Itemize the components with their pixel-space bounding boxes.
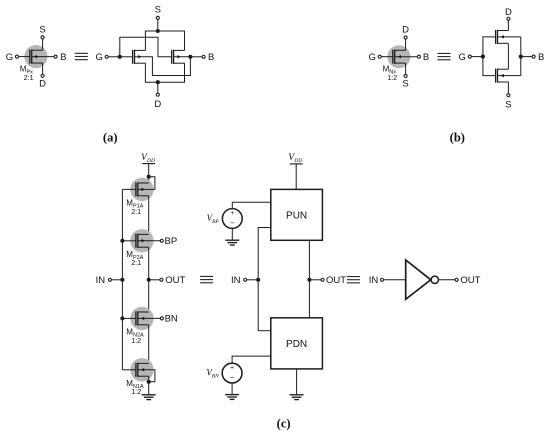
svg-text:+: + <box>230 210 234 217</box>
wire M1 source riser to S rail <box>144 31 146 50</box>
wire S rail <box>145 30 185 32</box>
wire M1 bulk return to B node <box>135 57 191 76</box>
svg-text:−: − <box>230 373 235 382</box>
wire MNx drain lead up to D terminal <box>405 39 407 50</box>
svg-text:OUT: OUT <box>460 275 480 286</box>
terminal OUT of block diagram <box>321 278 324 281</box>
node MN1A source junction <box>147 380 151 384</box>
wire OUT node to OUT terminal <box>149 279 160 281</box>
equivalence symbol left of inverter <box>347 276 360 278</box>
svg-text:S: S <box>402 79 408 90</box>
svg-text:S: S <box>39 24 45 35</box>
svg-text:IN: IN <box>369 275 379 286</box>
wire MPx drain lead down to D terminal <box>42 63 44 74</box>
VDD supply bar of block diagram <box>290 163 303 165</box>
node OUT junction of block diagram <box>307 278 311 282</box>
wire MN2A gate from IN line <box>122 317 135 319</box>
wire D rail to D terminal <box>157 82 159 93</box>
equivalence symbol left of (c) block diagram <box>200 275 213 277</box>
wire MN1A source to ground <box>148 376 150 395</box>
terminal D of MPx <box>41 74 44 77</box>
terminal S of (a) equivalent <box>156 16 159 19</box>
terminal G of MPx <box>15 55 18 58</box>
wire IN terminal to IN node <box>247 279 258 281</box>
gray highlight circle around MP1A <box>130 178 153 201</box>
wire VBN to ground <box>231 383 233 395</box>
wire MN1A bulk tied to source node <box>138 370 155 382</box>
svg-text:VBN: VBN <box>206 368 219 380</box>
inverter bubble <box>431 276 438 283</box>
node B junction <box>188 55 192 59</box>
voltage source VBN circle <box>222 363 242 383</box>
wire G terminal to G node <box>471 56 483 58</box>
wire MN2A source to MN1A drain <box>148 325 150 364</box>
node MN2A gate junction on IN line <box>120 316 124 320</box>
wire bottom bulk to B rail <box>498 75 521 77</box>
svg-text:G: G <box>459 52 466 63</box>
VDD supply bar of (c) stack <box>142 163 155 165</box>
transistor MPx symbol body (PMOS 4-terminal) <box>29 50 31 64</box>
wire M2 source riser to S rail <box>184 31 186 50</box>
transistor MP2A <box>135 234 137 248</box>
equivalence symbol of (a) <box>75 52 88 54</box>
svg-text:1:2: 1:2 <box>131 387 141 396</box>
terminal G of (a) equivalent circuit <box>105 55 108 58</box>
terminal B of MPx <box>54 55 57 58</box>
wire VDD to PUN box <box>295 164 297 190</box>
terminal B of (b) equivalent <box>532 55 535 58</box>
gray highlight circle around MN1A <box>130 358 153 381</box>
wire IN node to PDN box <box>258 280 271 331</box>
ground of VBN <box>225 394 239 396</box>
wire MNx bulk to B terminal <box>395 56 418 58</box>
wire MP2A gate from IN line <box>122 240 135 242</box>
node B junction of (b) <box>519 55 523 59</box>
svg-text:D: D <box>39 79 46 90</box>
terminal IN of (c) stack <box>108 278 111 281</box>
wire B node to B terminal <box>521 56 532 58</box>
svg-text:+: + <box>230 365 234 372</box>
svg-text:B: B <box>538 52 544 63</box>
svg-text:VDD: VDD <box>288 152 302 164</box>
terminal S of MNx <box>404 74 407 77</box>
transistor MP1A <box>135 182 137 196</box>
node G junction of (b) <box>481 55 485 59</box>
terminal BN <box>160 317 163 320</box>
wire M2 bulk to B node <box>174 56 191 58</box>
ground of PDN <box>290 394 304 396</box>
node S junction <box>156 29 160 33</box>
node MP1A source junction <box>147 175 151 179</box>
svg-text:PUN: PUN <box>286 211 307 222</box>
node D junction <box>156 80 160 84</box>
transistor M1 of (a) equivalent <box>132 50 134 64</box>
wire D rail <box>145 81 185 83</box>
wire MP2A bulk to BP terminal <box>138 240 160 242</box>
voltage source VBP circle <box>222 209 242 229</box>
gray highlight circle around MN2A <box>130 307 153 330</box>
gray highlight circle around MP2A <box>130 229 153 252</box>
transistor M2 of (a) equivalent <box>171 50 173 64</box>
PUN box <box>271 189 323 240</box>
svg-text:S: S <box>505 100 511 111</box>
svg-text:G: G <box>369 52 376 63</box>
wire top drain riser to D terminal <box>507 20 509 30</box>
wire B rail vertical <box>520 37 522 76</box>
terminal IN of block diagram <box>244 278 247 281</box>
wire OUT node to MN2A drain <box>148 280 150 312</box>
wire B node to B terminal <box>190 56 202 58</box>
wire MP1A bulk tied to source node <box>138 177 155 190</box>
svg-text:D: D <box>505 7 512 18</box>
wire M2 drain riser to D rail <box>184 63 186 82</box>
wire MNx source lead down to S terminal <box>405 63 407 74</box>
gray highlight circle around transistor MNx <box>387 45 410 68</box>
node MP2A gate junction on IN line <box>120 239 124 243</box>
wire top bulk to B rail <box>498 36 521 38</box>
wire VDD bar to MP1A source node <box>148 164 150 183</box>
wire MPx bulk to B terminal <box>32 56 54 58</box>
svg-text:BP: BP <box>165 236 178 247</box>
svg-text:OUT: OUT <box>165 275 185 286</box>
svg-text:IN: IN <box>96 275 106 286</box>
inverter triangle <box>406 260 431 299</box>
equivalence symbol of (b) <box>438 52 451 54</box>
terminal G of MNx <box>378 55 381 58</box>
terminal S of MPx <box>41 36 44 39</box>
svg-text:2:1: 2:1 <box>131 207 141 216</box>
svg-text:(b): (b) <box>450 131 465 145</box>
PDN box <box>271 318 323 369</box>
wire series node between transistors <box>507 43 509 69</box>
wire VBP to ground <box>231 228 233 240</box>
wire S rail to S terminal <box>157 20 159 31</box>
wire IN terminal to IN line <box>112 279 123 281</box>
terminal BP <box>160 239 163 242</box>
IN line vertical of (c) stack <box>121 189 123 369</box>
wire IN terminal to inverter <box>384 279 406 281</box>
wire G node to both gates <box>483 37 496 76</box>
terminal OUT of (c) stack <box>160 278 163 281</box>
wire MPx source lead up to S terminal <box>42 39 44 50</box>
svg-text:1:2: 1:2 <box>387 73 397 82</box>
svg-text:−: − <box>230 218 235 227</box>
svg-text:(a): (a) <box>103 131 118 145</box>
svg-text:(c): (c) <box>277 417 291 431</box>
ground of (c) stack <box>142 394 156 396</box>
svg-text:BN: BN <box>165 314 178 325</box>
wire G to node <box>108 56 120 58</box>
svg-text:IN: IN <box>231 275 241 286</box>
svg-text:D: D <box>154 99 161 110</box>
wire inverter bubble to OUT terminal <box>439 279 456 281</box>
transistor MN1A <box>135 363 137 377</box>
wire MN1A gate from IN line corner <box>122 369 135 371</box>
wire bottom source riser to S terminal <box>507 82 509 94</box>
gray highlight circle around transistor MPx <box>24 45 47 68</box>
svg-text:1:2: 1:2 <box>131 336 141 345</box>
svg-text:B: B <box>208 52 214 63</box>
wire MP1A drain to MP2A source <box>148 196 150 235</box>
transistor MNx symbol body (NMOS 4-terminal) <box>392 50 394 64</box>
svg-text:D: D <box>402 24 409 35</box>
svg-text:OUT: OUT <box>326 275 346 286</box>
terminal D of (b) equivalent <box>507 17 510 20</box>
svg-text:2:1: 2:1 <box>24 73 34 82</box>
wire OUT node to OUT terminal <box>309 279 321 281</box>
svg-text:G: G <box>6 52 13 63</box>
svg-text:PDN: PDN <box>286 339 307 350</box>
node IN junction of (c) stack <box>120 278 124 282</box>
wire VBN to PDN box <box>232 356 271 363</box>
node OUT junction of (c) stack <box>147 278 151 282</box>
svg-text:G: G <box>96 52 103 63</box>
wire MP1A gate from IN line <box>122 188 135 190</box>
wire MN2A bulk to BN terminal <box>138 317 161 319</box>
wire VBP to PUN box <box>232 202 270 208</box>
node IN junction of block diagram <box>256 278 260 282</box>
wire MP2A drain to OUT node <box>148 247 150 280</box>
terminal D of MNx <box>404 36 407 39</box>
transistor MN2A <box>135 311 137 325</box>
svg-text:S: S <box>155 5 161 16</box>
wire G terminal to MPx gate <box>19 56 30 58</box>
terminal B of (a) equivalent <box>202 55 205 58</box>
terminal OUT of inverter <box>455 278 458 281</box>
wire G terminal to MNx gate <box>381 56 393 58</box>
transistor MN-bottom of (b) equivalent <box>495 69 497 83</box>
svg-text:2:1: 2:1 <box>131 258 141 267</box>
wire G node up-over-down to M2 gate <box>120 37 172 57</box>
transistor MN-top of (b) equivalent <box>495 30 497 44</box>
terminal G of (b) equivalent <box>468 55 471 58</box>
node G junction <box>118 55 122 59</box>
svg-text:B: B <box>423 52 429 63</box>
terminal B of MNx <box>417 55 420 58</box>
wire M1 drain riser to D rail <box>144 63 146 82</box>
terminal IN of inverter <box>380 278 383 281</box>
wire OUT node to PDN box <box>308 280 310 318</box>
terminal D of (a) equivalent <box>156 93 159 96</box>
ground of VBP <box>225 239 239 241</box>
wire G node to M1 gate <box>120 56 133 58</box>
wire PUN box to OUT node <box>308 240 310 279</box>
wire IN node to PUN box <box>258 228 271 280</box>
wire PDN box to ground <box>296 369 298 395</box>
svg-text:VBP: VBP <box>207 213 220 225</box>
svg-text:B: B <box>60 52 66 63</box>
svg-text:VDD: VDD <box>141 152 155 164</box>
terminal S of (b) equivalent <box>507 94 510 97</box>
